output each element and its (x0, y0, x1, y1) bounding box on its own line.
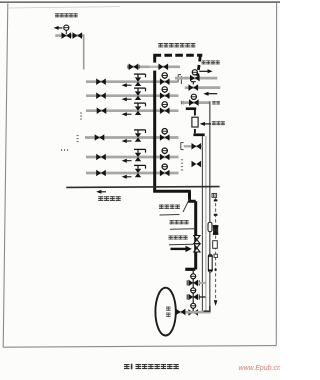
arrow flow row6 (122, 175, 132, 179)
pipe row 6 (86, 172, 179, 175)
vent ball valve VB1 (194, 236, 200, 244)
border frame bottom (3, 346, 276, 348)
leader underline 2 (170, 228, 195, 231)
component box on metering branch (213, 241, 218, 249)
small box on metering branch (214, 254, 217, 257)
flange cap thick bar above safety valve (186, 107, 196, 110)
node cap a (214, 199, 218, 201)
filter capsule F1 on riser (208, 222, 212, 231)
wire elbow down from outlet pipe (83, 35, 85, 70)
node cap b (214, 214, 218, 216)
valve VS1 on stub1 (192, 143, 202, 150)
regulator valve row2 R2 (134, 88, 146, 100)
dark valve on metering branch (212, 225, 218, 235)
header main vertical thick (153, 54, 156, 193)
pipe row 4 (85, 136, 179, 139)
wire crossing jump white box on row A (150, 63, 157, 71)
label 改造的工艺管线 (158, 43, 195, 47)
border frame left (3, 4, 8, 348)
pipe C inlet (185, 86, 221, 89)
border frame inner top faint (8, 7, 120, 8)
flange mark pipe D left (181, 101, 183, 104)
valve row3 V31 (97, 107, 107, 114)
pipe D down-leg feed (182, 101, 210, 104)
ejector ball valve VB2 (194, 244, 200, 252)
regulator valve row6 R6 (134, 165, 146, 177)
wire tank column line (192, 270, 194, 313)
label 放散火炬 (98, 196, 121, 201)
regulator valve row3 R3 (134, 103, 146, 115)
hatch box top of metering branch (212, 193, 217, 197)
arrow flow row5 (122, 159, 132, 163)
wire right riser from pipe D (209, 101, 211, 313)
arrow flow row2 (122, 97, 132, 101)
pipe row A across jump (150, 66, 157, 68)
valve VC with T-handle (189, 82, 199, 91)
label 安全阀 (212, 121, 225, 125)
safety valve SV body (192, 117, 198, 127)
arrow to gas station right (199, 69, 212, 73)
pipe row 5 (86, 156, 179, 159)
pipe row 1 (86, 80, 179, 83)
dash segment dark (215, 269, 217, 271)
tick marks left of row5 (61, 149, 68, 151)
tick marks near row4 start (77, 135, 79, 142)
valve row1 V11 (96, 78, 106, 85)
wire thick drop jog (190, 191, 196, 201)
gauge P1 circle above valve (64, 25, 69, 30)
label 引射系统 (159, 205, 180, 209)
arrow down metering branch (214, 300, 218, 306)
handwheel valve row1 W1 (160, 73, 170, 85)
arrow flow row1 (122, 83, 132, 87)
handwheel valve row6 W6 (160, 164, 170, 176)
valve row4 V41 (95, 134, 105, 141)
wire vent flare line (66, 186, 219, 189)
leader slash 1 (183, 199, 190, 212)
pipe B to gas station (175, 77, 217, 80)
valve V01 (62, 32, 72, 39)
wire thick foot bar (185, 268, 195, 271)
arrow flow row3 (122, 112, 132, 116)
handwheel valve WD on pipe D (189, 94, 199, 106)
regulator valve row1 R1 (134, 74, 146, 86)
wire stub from T1 to risers (199, 282, 206, 284)
leader underline 3 (169, 243, 193, 246)
wire dark stub from T2 (199, 296, 205, 298)
wire elbow right riser to tank line (204, 306, 210, 311)
handwheel valve WB on pipe B (190, 70, 200, 82)
label 放散球阀 (170, 220, 189, 224)
valve VA2 (159, 64, 169, 71)
valve VA1 (129, 64, 139, 71)
label 储罐 (166, 307, 171, 317)
handwheel valve row4 W4 (160, 129, 170, 141)
flange ticks row A valve (128, 65, 139, 69)
flange mark pipe B left (178, 75, 181, 84)
storage tank ellipse (155, 288, 175, 336)
label 引射球阀 (169, 235, 188, 239)
wire vertical run v2 (205, 136, 207, 313)
handwheel valve row5 W5 (160, 148, 170, 160)
valve VS2 stub2 (192, 161, 202, 168)
wire modified process line dashed drop right (198, 57, 201, 77)
handwheel valve T2 (187, 288, 199, 300)
wire header bottom thick horizontal (153, 190, 191, 193)
label 去加气站 (202, 60, 220, 64)
arrow ejector inlet thick right (171, 246, 192, 252)
tick marks stub2 left (181, 159, 183, 170)
svg-text:www.Epub.cn: www.Epub.cn (239, 365, 281, 372)
wire page top edge line (0, 1, 280, 3)
regulator valve row4 R4 (134, 130, 146, 142)
valve V02 (73, 32, 83, 39)
arrow flow-in left on pipe C (203, 92, 217, 96)
pipe row 2 (86, 94, 179, 97)
pipe to mid-pressure network (55, 34, 84, 37)
handwheel valve T1 (187, 274, 199, 286)
arrow to flare left (96, 190, 106, 194)
valve row2 V21 (96, 92, 106, 99)
label 管道 (212, 101, 220, 104)
handwheel valve T3 (188, 303, 198, 315)
arrow flow-out left (to mid-pressure network) (54, 26, 63, 30)
wire vertical run v1 (201, 136, 203, 313)
wire dashed drop to safety valve (194, 110, 196, 133)
wire dashed metering branch (215, 198, 217, 300)
flange mark stub1 left (181, 143, 184, 150)
regulator valve row5 R5 (134, 149, 146, 161)
handwheel valve row2 W2 (160, 87, 170, 99)
caption 图1 站场工艺示意图 (124, 364, 179, 370)
wire thick ejector feed vertical (194, 201, 197, 269)
arrow flow row4 (122, 139, 132, 143)
valve row6 V61 (96, 170, 106, 177)
tick marks near row3 start (80, 113, 82, 120)
arrow pointing at safety valve (200, 122, 211, 126)
pipe row 3 (86, 109, 179, 112)
pipe tank outlet (176, 311, 210, 314)
handwheel valve row3 W3 (160, 102, 170, 114)
flange cap thick bar below safety valve (193, 133, 204, 136)
valve row5 V51 (96, 154, 106, 161)
pipe row A (127, 65, 180, 68)
pipe stub1 (184, 145, 203, 147)
label 至中压管网 (55, 13, 78, 17)
filter capsule F2 on riser (208, 254, 213, 272)
border frame right (275, 3, 277, 346)
valve tank VT (176, 309, 186, 316)
leader underline 1 (160, 214, 180, 217)
wire modified process line thick dashed horizontal (154, 54, 203, 57)
